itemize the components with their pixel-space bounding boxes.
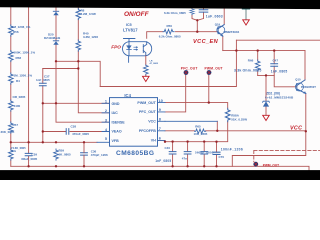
zener diode ZD2 [263,101,270,106]
svg-text:1%: 1% [12,149,16,153]
svg-text:47_0805: 47_0805 [150,62,159,65]
svg-text:ISENSE: ISENSE [112,120,126,124]
opto output resistor 47_0805 [144,64,149,75]
resistor R57 [9,122,14,133]
resistor R40 [76,40,81,51]
junction R40 wire crossing [77,60,79,62]
junction PWM_OUT port / pin10 line [208,101,210,103]
svg-text:LTV817: LTV817 [123,28,138,33]
junction C47 top [273,49,275,51]
svg-text:C39: C39 [32,153,38,157]
junction VCC_EN riser / rail50 [235,49,237,51]
svg-text:R58: R58 [16,56,22,60]
wire Q10 emitter down [305,94,307,132]
capacitor C42 [201,152,208,154]
capacitor C37 [39,83,46,85]
svg-text:470pF_1206: 470pF_1206 [91,153,108,157]
wire VFB rail y=142.3 [11,141,97,143]
junction C70 bottom [215,165,217,167]
svg-text:C70: C70 [219,155,225,159]
resistor R51 top [190,8,195,14]
junction divider to Q19 base [196,31,198,33]
svg-text:1: 1 [105,100,107,104]
svg-text:MMBT3904: MMBT3904 [224,30,240,34]
svg-text:0+6J_MMSZ5240B: 0+6J_MMSZ5240B [265,96,294,100]
wire solid path to PWM_OUT port [232,131,305,166]
capacitor C47 [271,64,278,66]
diode D20 top [53,11,58,15]
wire pin8 VCC (blue highlighted net) [165,120,217,122]
wire R51 top stub [192,7,204,10]
opto-coupler IC5 body [123,38,152,62]
svg-text:IC5: IC5 [126,23,132,27]
svg-text:1nF_0805: 1nF_0805 [155,159,171,163]
svg-text:R56: R56 [13,30,19,34]
junction C39 / bottom rail [27,165,29,167]
capacitor C41 [184,152,191,154]
wire bottom rail [11,166,309,170]
wire PFC port down to pin9 [165,75,186,112]
svg-text:C47: C47 [273,59,279,63]
resistor R65 (horizontal) [195,129,206,134]
svg-text:IC4: IC4 [124,93,131,98]
right pin stubs [158,103,166,141]
resistor R56 [9,25,14,36]
junction R66 top [257,49,259,51]
junction C37 chain / VEAO line [42,130,44,132]
junction C37 chain / GND line [42,102,44,104]
svg-text:PWM_OUT: PWM_OUT [263,163,279,167]
svg-text:PWM_OUT: PWM_OUT [205,67,223,71]
junction zener tap [265,74,267,76]
svg-text:GND: GND [112,102,120,106]
junction C42 bottom [203,165,205,167]
wire pin5 VFB blue segment [97,141,110,143]
resistor R4 [9,73,14,84]
junction C42 top [203,140,205,142]
svg-text:500K_1206_1%: 500K_1206_1% [14,50,36,54]
svg-text:2400: 2400 [14,104,21,108]
svg-text:C38: C38 [71,125,77,129]
svg-text:R66: R66 [248,59,254,63]
svg-text:VCC: VCC [290,126,302,132]
wire Q19 collector top [223,7,225,25]
svg-text:10: 10 [159,99,163,103]
wire opto collector up and right [147,32,218,39]
junction C36 / VFB rail [83,141,85,143]
svg-text:3.3M_1206: 3.3M_1206 [83,35,98,39]
svg-text:R65: R65 [195,125,201,129]
svg-text:30K_0805: 30K_0805 [1,130,15,134]
black top bar [0,0,320,9]
svg-text:VEAO: VEAO [112,130,122,134]
svg-text:1nF_0805: 1nF_0805 [36,78,50,82]
svg-text:DZ41N8A/B: DZ41N8A/B [44,36,61,40]
wire dashed net [254,150,320,161]
wire R66/C47 bottom rail [258,75,297,86]
capacitor C36 [81,153,88,155]
svg-text:PWM_OUT: PWM_OUT [137,101,156,105]
wire second vertical x=28.6 [28,7,30,167]
capacitor C38 (horizontal, series) [66,129,69,135]
wire zener stub [265,75,267,115]
wire top-right cap stub [245,9,247,19]
svg-text:1nF_0805: 1nF_0805 [271,70,288,74]
svg-text:10K_0805: 10K_0805 [194,132,208,136]
svg-text:100nF_1206: 100nF_1206 [221,148,243,152]
svg-text:VCC_EN: VCC_EN [193,39,219,45]
wire left chain x=10.8 [10,7,12,167]
svg-text:6.2k Ohm_0805: 6.2k Ohm_0805 [159,34,181,38]
svg-text:5: 5 [105,137,107,141]
junction wire2 / VFB rail [27,141,29,143]
svg-text:FPO: FPO [111,45,121,50]
svg-text:VH: VH [151,139,156,143]
resistor 78.6K [9,149,14,160]
left pin stubs [102,103,110,131]
ground below zener [263,115,270,120]
svg-text:C40: C40 [165,146,171,150]
svg-text:Q19: Q19 [215,23,221,27]
wire rail y=50.6 [223,50,305,52]
svg-text:470nF_0805: 470nF_0805 [72,132,89,136]
capacitor C70 (larger) [213,152,220,154]
svg-text:1M_1206_1%: 1M_1206_1% [12,25,31,29]
svg-text:VCC: VCC [148,120,156,124]
black bottom bar [0,170,320,180]
port PWM_OUT [207,70,212,75]
wire C42 stubs [203,142,205,167]
junction D20/R40 net [55,60,57,62]
wire R51/C52 join [192,12,204,32]
svg-text:6: 6 [159,137,161,141]
wire GND line to pin1 [43,102,110,104]
diode D20 bottom [53,41,58,45]
svg-text:3.3k Ohm_0805: 3.3k Ohm_0805 [234,69,261,73]
wire rail y=40.2 top right [236,39,320,41]
svg-text:2: 2 [105,109,107,113]
wire C37 top link and long rail to VCC_EN net [43,40,237,86]
wire R8/R40 x=78.3 down to pin2 [78,7,109,113]
capacitor C52 top [199,10,208,12]
svg-text:Q10: Q10 [295,78,301,82]
junction C36 / bottom rail [83,165,85,167]
junction VH stub [164,141,166,143]
wire VEAO line with C38 [43,131,110,133]
svg-text:1M_1206_1%: 1M_1206_1% [14,74,33,78]
svg-text:PFC_OUT: PFC_OUT [139,110,157,114]
svg-text:LR: LR [150,60,153,62]
svg-text:1uF_0603: 1uF_0603 [206,14,223,18]
junction pin8 drop / VCC line [216,130,218,132]
wire C40 stubs [172,142,174,167]
wire pin8 VCC drop [216,121,218,131]
resistor R8 [76,9,81,20]
wire R66 stubs [257,51,259,76]
svg-text:/06uF_0805: /06uF_0805 [21,157,38,161]
svg-text:PFCOFFB: PFCOFFB [139,129,156,133]
svg-text:2.2M_0.5W: 2.2M_0.5W [81,12,97,16]
resistor R58 [9,51,14,62]
svg-text:R57: R57 [13,123,19,127]
junction C40 top [171,140,173,142]
svg-text:8: 8 [159,118,161,122]
junction C41 bottom [186,165,188,167]
svg-text:CM6805BG: CM6805BG [116,150,154,157]
junction C37 chain / VFB rail [42,141,44,143]
transistor Q10 [295,80,305,94]
junction Q10 emitter / VCC rail [305,130,307,132]
svg-text:3: 3 [105,119,107,123]
junction C41 top [186,140,188,142]
wire diode string x=56 [55,7,57,62]
wire C47 stubs [273,51,275,76]
svg-text:9: 9 [159,108,161,112]
resistor R66 [255,60,260,71]
svg-text:ON/OFF: ON/OFF [124,11,150,18]
resistor R59 [54,149,59,160]
capacitor C39 [25,153,32,155]
svg-text:PBSS8550T: PBSS8550T [301,85,316,89]
wire C70 stubs [216,142,218,167]
wire pin10 line to R58A [158,103,228,142]
wire stubs C36 [83,142,85,166]
junction R51/C52 [196,19,198,21]
svg-text:5K_0805: 5K_0805 [59,152,72,156]
opto LED [128,42,130,63]
opto phototransistor [142,45,144,53]
svg-text:47n: 47n [182,157,187,161]
svg-text:PFC_OUT: PFC_OUT [181,67,198,71]
svg-text:R4: R4 [16,79,20,83]
junction ISENSE wire / GND line [55,102,57,104]
resistor 2400 [9,100,14,111]
junction left chain / VFB rail [10,141,12,143]
ground top right cap [243,20,250,25]
wire VCC line y=131.3 [165,130,306,132]
IC4 pin numbers [105,99,163,141]
svg-text:R50: R50 [167,24,173,28]
wire C41 stubs [187,142,189,167]
svg-text:OR_0805: OR_0805 [13,95,26,99]
wire PWM port down to pin10 line [208,75,210,103]
wire Q10 collector up [304,51,306,80]
svg-text:560nF_0805: 560nF_0805 [195,151,214,155]
junction R59 / VFB rail [55,141,57,143]
wire C37/C38 chain x=42.8 [42,69,44,143]
junction C37 link / IAC wire [77,67,79,69]
junction C40 bottom [171,165,173,167]
svg-text:51K_0.25W: 51K_0.25W [231,117,247,121]
IC4 pin names [112,101,157,143]
junction R59 / bottom rail [55,165,57,167]
wire D20/R40 net corner down to rail [56,61,100,86]
port PFC_OUT [184,70,189,75]
svg-text:6.2k Ohm_0805: 6.2k Ohm_0805 [164,11,186,15]
wire Q19 emitter down to rail50.6 [222,36,224,50]
svg-text:7: 7 [159,127,161,131]
opto pin T-bar [124,38,135,41]
ground below opto resistor [143,76,150,81]
port PWM_OUT bottom [253,162,258,167]
svg-text:VFB: VFB [112,139,120,143]
capacitor top-right edge [243,8,250,10]
junction C70 top [215,141,217,143]
svg-text:IAC: IAC [112,111,119,115]
resistor R50 (horizontal) [163,29,174,34]
wire ISENSE x=56 down to pin3 [56,61,110,122]
resistor R58A [225,108,230,121]
capacitor C40 [169,152,176,154]
opto arrows [134,47,138,49]
transistor Q19 [217,25,225,37]
